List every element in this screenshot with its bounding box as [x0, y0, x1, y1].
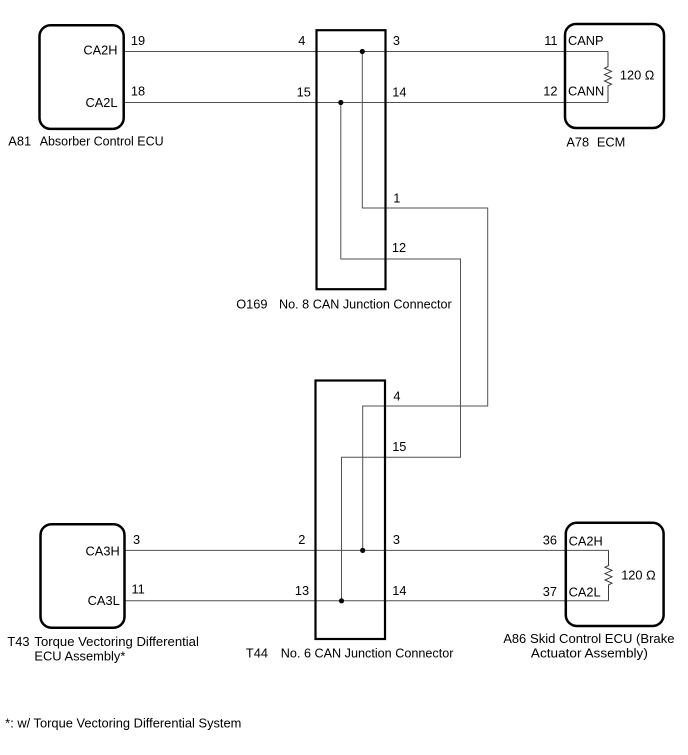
svg-text:15: 15 — [392, 439, 406, 454]
svg-text:120 Ω: 120 Ω — [620, 68, 655, 83]
svg-text:CA2L: CA2L — [569, 585, 601, 600]
svg-text:ECU Assembly*: ECU Assembly* — [34, 649, 125, 664]
junction node on O169 wire 3 — [360, 49, 365, 54]
ECU A86 Skid Control body — [566, 523, 664, 626]
svg-text:*: w/ Torque Vectoring Differe: *: w/ Torque Vectoring Differential Syst… — [5, 715, 241, 730]
svg-text:Absorber Control ECU: Absorber Control ECU — [40, 133, 164, 148]
junction node on T44 wire 14 — [339, 598, 344, 603]
junction node on O169 wire 14 — [338, 100, 343, 105]
svg-text:14: 14 — [392, 84, 406, 99]
svg-text:4: 4 — [393, 389, 400, 404]
svg-text:36: 36 — [543, 533, 557, 548]
svg-text:A78: A78 — [566, 134, 589, 149]
svg-text:37: 37 — [543, 584, 557, 599]
svg-text:19: 19 — [131, 33, 145, 48]
junction node on T44 wire 3 — [360, 548, 365, 553]
svg-text:O169: O169 — [236, 297, 267, 312]
svg-text:CANN: CANN — [568, 83, 604, 98]
svg-text:CANP: CANP — [568, 33, 604, 48]
svg-text:CA2H: CA2H — [569, 534, 603, 549]
svg-text:3: 3 — [393, 33, 400, 48]
wire CA2L bus: A81 pin18 to O169 pin15/14 to ECM pin12 — [124, 102, 608, 104]
svg-text:3: 3 — [393, 532, 400, 547]
svg-text:15: 15 — [297, 84, 311, 99]
svg-text:4: 4 — [298, 33, 305, 48]
svg-text:CA2H: CA2H — [83, 42, 117, 57]
svg-text:12: 12 — [543, 83, 557, 98]
svg-text:3: 3 — [133, 532, 140, 547]
resistor 120 ohm inside ECM — [605, 52, 612, 103]
svg-text:A86: A86 — [503, 631, 526, 646]
svg-text:T43: T43 — [7, 634, 29, 649]
svg-text:11: 11 — [132, 582, 145, 597]
svg-text:11: 11 — [544, 33, 557, 48]
wire CA2H bus: A81 pin19 to O169 pin4/3 to ECM pin11 — [124, 51, 608, 53]
ECU A81 Absorber Control ECU body — [40, 25, 124, 129]
svg-text:12: 12 — [392, 240, 406, 255]
ECM A78 body — [565, 24, 664, 128]
svg-text:2: 2 — [298, 532, 305, 547]
svg-text:CA2L: CA2L — [85, 95, 117, 110]
svg-text:Actuator Assembly): Actuator Assembly) — [531, 646, 648, 661]
ECU T43 Torque Vectoring Differential ECU body — [41, 524, 125, 628]
svg-text:Skid Control ECU (Brake: Skid Control ECU (Brake — [530, 631, 675, 646]
svg-text:A81: A81 — [8, 133, 31, 148]
svg-text:18: 18 — [131, 84, 145, 99]
svg-text:120 Ω: 120 Ω — [621, 567, 656, 582]
svg-text:No. 6 CAN Junction Connector: No. 6 CAN Junction Connector — [281, 645, 454, 660]
svg-text:CA3L: CA3L — [88, 593, 120, 608]
svg-text:T44: T44 — [246, 645, 268, 660]
svg-text:13: 13 — [295, 583, 309, 598]
wire CA3L bus: T43 pin11 to T44 pin13/14 to A86 pin37 — [125, 600, 609, 602]
svg-text:1: 1 — [393, 190, 400, 205]
connector T44 No. 6 CAN Junction Connector body — [316, 381, 386, 640]
wire O169 pin1 branch to T44 pin4 — [362, 52, 487, 551]
svg-text:Torque Vectoring Differential: Torque Vectoring Differential — [34, 634, 199, 649]
wire O169 pin12 branch to T44 pin15 — [341, 103, 461, 601]
connector O169 No. 8 CAN Junction Connector body — [317, 30, 386, 289]
svg-text:ECM: ECM — [597, 134, 625, 149]
svg-text:14: 14 — [392, 583, 406, 598]
resistor 120 ohm inside A86 — [605, 550, 612, 600]
wire CA3H bus: T43 pin3 to T44 pin2/3 to A86 pin36 — [125, 549, 609, 551]
svg-text:No. 8 CAN Junction Connector: No. 8 CAN Junction Connector — [279, 297, 452, 312]
svg-text:CA3H: CA3H — [86, 543, 120, 558]
